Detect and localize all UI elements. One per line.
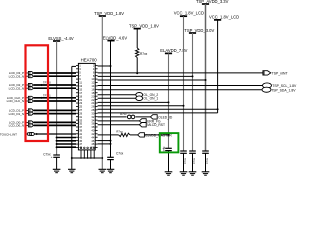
wire ELAVDD vertical [168, 53, 170, 148]
svg-text:LCD_D0_N: LCD_D0_N [9, 124, 24, 128]
ground ELVDD_MASTER [165, 171, 173, 173]
wire ELVSS cap to gnd [56, 157, 58, 169]
pin symbol LCD_D0_P [25, 121, 28, 123]
wire TSP_nINT [98, 72, 263, 74]
wire VCC1 cap to gnd [183, 153, 185, 172]
wire LCD_D1_N [34, 113, 76, 115]
power flag TSP_AVDD_3.3V [202, 3, 209, 5]
svg-text:24: 24 [91, 101, 94, 105]
wire OLED_ID [98, 116, 151, 118]
svg-text:33: 33 [79, 118, 82, 122]
svg-text:38: 38 [91, 125, 94, 129]
capacitor C7xx ELVSS [53, 154, 60, 156]
svg-text:TA_TOUCH_INT: TA_TOUCH_INT [0, 132, 17, 136]
wire LCD_D0_P [34, 121, 76, 123]
svg-text:TSP_VDD_1.8V: TSP_VDD_1.8V [94, 11, 124, 16]
svg-text:VCC_1.8V_LCD: VCC_1.8V_LCD [174, 11, 204, 16]
svg-text:31: 31 [79, 115, 82, 119]
green highlight box [160, 133, 179, 152]
wire OL_ON_1 [98, 97, 136, 99]
wire ELVSS stub y137.5 [57, 137, 76, 139]
capacitor C7xx ELVDD_MASTER [165, 147, 172, 149]
wire ELVSS stub y140.8 [57, 140, 76, 142]
svg-text:LCD_CLK_N: LCD_CLK_N [7, 99, 24, 103]
svg-text:44: 44 [91, 135, 94, 139]
wire row to ELAVDD [98, 101, 169, 103]
power flag TSP_VDD_3.0V [189, 32, 196, 34]
wire ELVDD vertical [110, 41, 112, 158]
pin symbol LCD_D3_P [25, 72, 28, 74]
wire TA_TOUCH [35, 133, 76, 135]
svg-text:R7xx: R7xx [140, 52, 148, 56]
svg-text:26: 26 [91, 105, 94, 109]
wire ELVDD_MASTER c [144, 134, 168, 136]
wire ELVDD cap to gnd [110, 160, 112, 170]
pin symbol LCD_D1_N [25, 113, 28, 115]
svg-text:HEA700: HEA700 [81, 57, 98, 62]
svg-text:22: 22 [91, 98, 94, 102]
power flag TSP_VDD_1.8V [99, 15, 106, 17]
wire TSP_SDA [98, 89, 262, 91]
ground ELVDD [107, 168, 115, 170]
wire TSP_VDD_3.0V vertical [192, 33, 194, 151]
pin symbol LCD_D0_N [25, 124, 28, 126]
pin symbol LCD_CLK_P [25, 97, 28, 99]
power flag VCC_1.8V_LCD 2 [214, 19, 221, 21]
ground TSP_VDD_1.8V [99, 168, 107, 170]
wire TSP_SCL [98, 85, 263, 87]
svg-text:ELVDD_4.6V: ELVDD_4.6V [103, 35, 128, 40]
wire row to VCC2 upper [98, 108, 218, 110]
wire stub row 140.6 [98, 140, 111, 142]
ground ELVSS [53, 168, 61, 170]
wire ELVDD_MASTER b [130, 134, 138, 136]
wire R7xx bottom [136, 58, 138, 74]
svg-text:48: 48 [91, 142, 94, 146]
wire TSPVDD30 cap to gnd [192, 153, 194, 172]
svg-text:10: 10 [91, 77, 94, 81]
wire ground bus [72, 157, 103, 159]
svg-text:42: 42 [91, 132, 94, 136]
svg-text:23: 23 [79, 101, 82, 105]
wire LCD_D3_P [34, 72, 76, 74]
tag ELVDD_MASTER [138, 133, 145, 137]
wire ELVSS stub y144.0 [57, 143, 76, 145]
wire LCD_D0_N [34, 124, 76, 126]
wire TSPAVDD cap to gnd [205, 153, 207, 172]
connector shield circles [80, 147, 82, 149]
power flag ELVSS_-4.4V [53, 40, 60, 42]
wire gnd bus stub top [72, 65, 76, 67]
wire TSP_VDD_1.8V vertical [101, 16, 103, 169]
svg-text:R7xx: R7xx [120, 112, 127, 116]
resistor R7xx series [119, 133, 130, 136]
svg-text:27: 27 [79, 108, 82, 112]
svg-text:13: 13 [79, 84, 82, 88]
ground bus left [68, 168, 76, 170]
wire row to VCC1 [98, 105, 184, 107]
svg-text:ELVSS_-4.4V: ELVSS_-4.4V [48, 36, 73, 41]
wire ELVDD pin row [98, 65, 111, 67]
svg-text:12: 12 [91, 81, 94, 85]
wire TSP_AVDD vertical [205, 4, 207, 151]
resistor R7xx [136, 48, 139, 58]
wire LCD_D2_N [34, 87, 76, 89]
resistor R7xx jumper [127, 115, 136, 119]
pin symbol LCD_D2_P [25, 84, 28, 86]
svg-text:C7xx: C7xx [116, 152, 124, 156]
svg-text:20: 20 [91, 94, 94, 98]
svg-text:18: 18 [91, 91, 94, 95]
tag OLED_ID [150, 115, 157, 119]
ground VCC1 [180, 171, 188, 173]
svg-text:28: 28 [91, 108, 94, 112]
power flag VCC_1.8V_LCD [180, 15, 187, 17]
connector shield stubs [80, 150, 82, 158]
wire LCD_D1_P [34, 109, 76, 111]
svg-text:19: 19 [79, 94, 82, 98]
svg-text:VCC_1.8V_LCD: VCC_1.8V_LCD [209, 15, 239, 20]
svg-text:LCD_D1_N: LCD_D1_N [9, 112, 24, 116]
wire ELVDD_MASTER a [98, 134, 119, 136]
svg-text:43: 43 [79, 135, 82, 139]
svg-text:29: 29 [79, 111, 82, 115]
svg-text:17: 17 [79, 91, 82, 95]
svg-text:TSP_AVDD_3.3V: TSP_AVDD_3.3V [196, 0, 229, 4]
wire ERR_FG [98, 120, 140, 122]
pin symbol LCD_D2_N [25, 87, 28, 89]
wire VCC2 vertical [217, 20, 219, 113]
tag ERR_FG [139, 119, 146, 123]
svg-text:+: + [51, 155, 53, 159]
svg-text:TSP_SDA_1.8V: TSP_SDA_1.8V [271, 88, 296, 92]
pin symbol LCD_CLK_N [25, 100, 28, 102]
connector pins [76, 64, 78, 66]
svg-text:40: 40 [91, 129, 94, 133]
svg-text:35: 35 [79, 122, 82, 126]
port TSP_nINT [263, 71, 271, 75]
svg-text:49: 49 [79, 146, 82, 150]
svg-text:R7xx: R7xx [116, 129, 123, 133]
wire VCC_1.8V_LCD vertical [183, 16, 185, 151]
wire row to TSP_VDD_3.0V [98, 75, 193, 77]
wire LCD_D3_N [34, 75, 76, 77]
svg-text:34: 34 [91, 118, 94, 122]
svg-text:21: 21 [79, 98, 82, 102]
wire ELVDD_MASTER cap gnd [168, 151, 170, 172]
svg-text:39: 39 [79, 129, 82, 133]
testpoint TP701 [41, 97, 44, 99]
pin symbol LCD_D1_P [25, 109, 28, 111]
svg-text:TSP_VDD_1.8V: TSP_VDD_1.8V [129, 23, 159, 28]
svg-text:14: 14 [91, 84, 94, 88]
capacitor C7xx TSPVDD30 [189, 150, 196, 152]
testpoint TP700 [41, 84, 44, 86]
port TSP_SDA_1.8V [262, 87, 271, 92]
svg-text:OL_ON_1: OL_ON_1 [143, 97, 158, 101]
svg-text:36: 36 [91, 122, 94, 126]
port OL_ON_2 [136, 93, 143, 98]
svg-text:MLCD_RST: MLCD_RST [147, 123, 165, 127]
capacitor C7xx TSPAVDD [202, 150, 209, 152]
ground TSPVDD30 [189, 171, 197, 173]
svg-text:15: 15 [79, 87, 82, 91]
wire R7xx top [136, 29, 138, 48]
port TSP_SCL_1.8V [263, 83, 272, 88]
wire VCC2 row [98, 112, 218, 114]
wire ELVSS stub y147.2 [57, 146, 76, 148]
wire LCD_CLK_P [34, 97, 76, 99]
svg-text:TSP_nINT: TSP_nINT [272, 71, 288, 75]
svg-text:46: 46 [91, 139, 94, 143]
port OL_ON_1 [136, 96, 143, 101]
svg-text:16: 16 [91, 87, 94, 91]
svg-text:LCD_D3_N: LCD_D3_N [9, 74, 24, 78]
svg-text:32: 32 [91, 115, 94, 119]
tag MLCD_RST [139, 123, 146, 127]
svg-text:47: 47 [79, 142, 82, 146]
red highlight box [26, 45, 49, 141]
ground TSPAVDD [202, 171, 210, 173]
wire LCD_CLK_N [34, 100, 76, 102]
wire row to TSP_AVDD [98, 79, 206, 81]
power flag ELVDD_4.6V [107, 40, 114, 42]
capacitor C7xx ELVDD [107, 156, 114, 158]
svg-text:TSP_VDD_3.0V: TSP_VDD_3.0V [184, 28, 214, 33]
wire OL_ON_2 [98, 94, 136, 96]
connector HEA700 box [78, 63, 95, 149]
wire MLCD_RST [98, 124, 140, 126]
wire stub row 143.9 [98, 143, 111, 145]
svg-text:25: 25 [79, 105, 82, 109]
pin symbol TA_TOUCH [25, 133, 27, 135]
wire ELVSS vertical [56, 41, 58, 155]
svg-text:37: 37 [79, 125, 82, 129]
wire gnd left vertical [71, 66, 73, 169]
svg-text:LCD_D2_N: LCD_D2_N [9, 86, 24, 90]
pin symbol LCD_D3_N [25, 75, 28, 77]
power flag ELAVDD_7.8V [165, 52, 172, 54]
capacitor C7xx VCC1 [180, 150, 187, 152]
svg-text:45: 45 [79, 139, 82, 143]
svg-text:41: 41 [79, 132, 82, 136]
wire LCD_D2_P [34, 84, 76, 86]
power flag TSP_VDD_1.8V 2 [134, 28, 141, 30]
svg-text:30: 30 [91, 111, 94, 115]
